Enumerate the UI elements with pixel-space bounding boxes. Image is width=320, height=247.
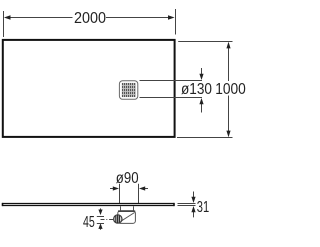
drain trap diagonal (119, 213, 134, 223)
drain trap neck right line (133, 206, 135, 211)
arrow upper of dia130 (199, 68, 203, 80)
wire: dash-dot centerline of outlet (101, 219, 114, 221)
svg-text:ø130: ø130 (181, 81, 212, 98)
drain grate inner textured square (122, 83, 136, 97)
wire: extension line right of 2000 dim (175, 9, 177, 35)
svg-text:2000: 2000 (74, 10, 106, 27)
arrow lower of dia130 (199, 98, 203, 113)
arrow lower of 45 (98, 223, 102, 230)
drain trap body top flange (118, 210, 135, 212)
wire: drain dim lower reference line (140, 97, 203, 99)
wire: tick at outlet top level (97, 216, 104, 218)
drain trap body (118, 211, 136, 224)
wire: tick at outlet bottom level (97, 223, 104, 225)
arrow lower of 31 (191, 206, 195, 217)
wire: extension line right of dia90 (138, 184, 140, 203)
drain grate outer square (119, 81, 137, 100)
wire: extension line bottom of 31 dim (178, 205, 196, 207)
wire: extension line left of 2000 dim (3, 11, 5, 37)
shower tray side view profile: left end cap (2, 203, 4, 206)
arrow upper of 45 (98, 208, 102, 215)
shower tray top view outline (3, 40, 175, 137)
shower tray side view profile: top line (2, 203, 175, 205)
dimension line 1000 lower segment with arrow (226, 96, 230, 138)
arrow right of dia90 (139, 186, 148, 190)
drain outlet circle (114, 215, 122, 223)
dimension line 2000 right segment with arrow (106, 15, 175, 19)
svg-text:1000: 1000 (215, 81, 246, 98)
drain trap neck left line (120, 206, 122, 211)
svg-text:45: 45 (83, 214, 95, 231)
dimension line 2000 left segment with arrow (4, 15, 73, 19)
arrow left of dia90 (110, 186, 119, 190)
shower tray side view profile: right end cap (173, 203, 175, 206)
svg-text:31: 31 (197, 199, 209, 216)
wire: extension line top of 31 dim (178, 203, 196, 205)
wire: extension line left of dia90 (119, 184, 121, 203)
wire: extension line bottom of 1000 dim (177, 137, 233, 139)
wire: extension line top of 1000 dim (178, 41, 232, 43)
arrow upper of 31 (191, 192, 195, 204)
shower tray side view profile: bottom line (2, 205, 175, 207)
dimension line 1000 upper segment with arrow (226, 42, 230, 81)
wire: drain dim upper reference line (140, 80, 203, 82)
